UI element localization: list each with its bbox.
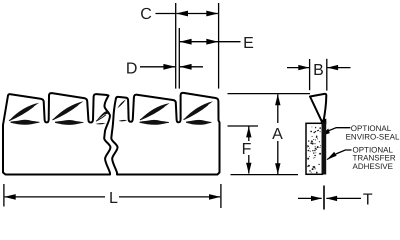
arrow A bottom — [275, 163, 280, 174]
arrow E right — [206, 39, 218, 45]
dimension D leader left — [140, 66, 175, 68]
dimension D tail right — [180, 66, 203, 68]
tooth1 dash — [11, 120, 40, 125]
leader enviro-seal — [322, 128, 350, 136]
B extension line right (x=326.8) — [326, 59, 328, 91]
arrow T left (points right) — [311, 196, 322, 201]
tooth4 slash — [140, 103, 170, 120]
note texts — [346, 124, 400, 171]
dimension F line — [248, 127, 250, 142]
arrow F bottom — [246, 163, 251, 174]
tooth2 dash — [55, 120, 84, 125]
tooth3b slash — [117, 99, 126, 108]
arrow A top — [275, 94, 280, 105]
svg-text:D: D — [126, 61, 138, 78]
svg-text:E: E — [243, 35, 254, 52]
dimension B right tail — [327, 67, 350, 69]
arrow C right — [206, 11, 218, 17]
L extension line right — [220, 184, 222, 208]
arrowheads (filled) — [4, 11, 338, 202]
extension line slot-right (x=179.3) — [178, 28, 180, 89]
tooth1 slash — [9, 103, 39, 121]
arrow T right (points left) — [326, 196, 337, 201]
side view: transfer adhesive black layer — [322, 122, 326, 174]
tooth3 slash (cut by break, ink blob at cut) — [96, 110, 108, 121]
svg-text:T: T — [363, 192, 373, 209]
svg-text:ENVIRO-SEAL: ENVIRO-SEAL — [346, 133, 400, 142]
svg-text:ADHESIVE: ADHESIVE — [353, 162, 393, 171]
T extension line (x=324) — [323, 186, 325, 210]
B extension line left (x=309.6) — [309, 59, 311, 90]
tooth3b dash — [119, 120, 128, 121]
dimension B left tail — [287, 67, 309, 69]
extension line slot-left (x=175.7) — [175, 3, 177, 89]
dimension labels — [109, 6, 373, 209]
L extension line left — [3, 184, 5, 207]
wedge tip ink blob — [320, 119, 327, 125]
dimension C line — [156, 13, 176, 15]
stipple dots — [307, 126, 321, 173]
dimension T left tail — [298, 197, 322, 199]
tooth grain marks (black slashes and dashes) — [9, 99, 213, 125]
bottom extension line (y=174.6) — [231, 174, 299, 176]
tooth3 dash — [96, 123, 106, 124]
arrow F top — [246, 126, 251, 137]
dimension E line — [180, 41, 218, 43]
F top extension line (y=126) — [228, 125, 259, 127]
serrated strip front view: left piece outline — [3, 93, 220, 175]
arrow B left (points right) — [298, 65, 309, 70]
side view: enviro-seal wedge — [310, 94, 326, 122]
arrowhead enviro-seal leader — [320, 129, 330, 137]
tooth5 dash — [186, 120, 212, 125]
arrow L left — [4, 194, 16, 200]
serrated strip front view: right piece outline — [111, 93, 219, 175]
arrowhead transfer leader — [327, 152, 337, 160]
dimension A line — [277, 94, 279, 123]
side view: adhesive strip body (stippled) — [306, 123, 322, 174]
extension line strip-right-top (x=218.6) — [218, 3, 220, 89]
arrow E left — [180, 39, 192, 45]
A top extension line (y=93.6) — [228, 93, 311, 95]
dimension T right tail — [326, 197, 361, 199]
svg-text:L: L — [109, 190, 118, 207]
tooth2 slash — [53, 101, 84, 120]
arrow B right (points left) — [327, 65, 338, 70]
arrow L right — [209, 194, 221, 200]
svg-text:C: C — [140, 6, 152, 23]
svg-text:F: F — [242, 141, 252, 158]
arrow D left (points right at line1) — [163, 64, 175, 70]
tooth5 slash — [184, 101, 214, 119]
tooth4 dash — [140, 120, 170, 125]
dimension L line — [5, 196, 105, 198]
arrow C left — [176, 11, 188, 17]
svg-text:B: B — [313, 62, 324, 79]
svg-text:A: A — [272, 126, 283, 143]
arrow D right (points left at line2) — [180, 64, 192, 70]
leader transfer adhesive — [327, 150, 352, 160]
